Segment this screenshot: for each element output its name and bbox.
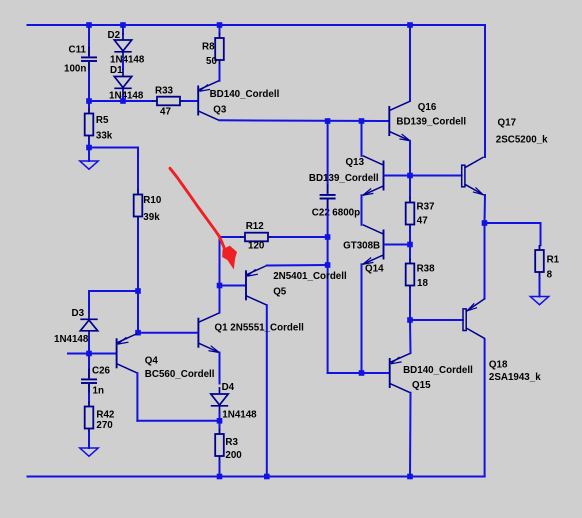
node R38/Q15 emitter/Q18 base junction: [407, 317, 413, 323]
node Q15 base junction: [359, 370, 365, 376]
wire R12 right: [273, 236, 328, 238]
node D4/R3 junction: [217, 418, 223, 424]
wire R10 top: [137, 148, 139, 190]
capacitor C22: [320, 184, 336, 209]
ground near R1: [530, 297, 548, 305]
diode D3 1N4148: [80, 312, 97, 338]
wire node to R33: [123, 100, 152, 102]
wire to R10 branch: [89, 147, 138, 149]
wire C11 bottom to node: [88, 72, 90, 102]
diode D4 1N4148: [211, 387, 228, 413]
wire Q13 emitter to Q14 collector: [361, 195, 363, 224]
svg-text:R3: R3: [225, 437, 238, 448]
ground near R5: [80, 161, 98, 169]
svg-text:D3: D3: [72, 308, 85, 319]
wire Q5 base node to Q1 collector: [219, 286, 221, 313]
svg-text:GT308B: GT308B: [343, 240, 380, 251]
wire C26 top: [88, 354, 90, 370]
node Q4 emitter/Q1 base junction: [135, 330, 141, 336]
wire D1 bottom: [122, 96, 124, 102]
wire R37 top: [409, 176, 411, 198]
ground near R42: [80, 448, 98, 456]
transistor Q15 BD140_Cordell (PNP): [390, 353, 411, 393]
wire R3 bottom: [219, 461, 221, 477]
svg-text:Q16: Q16: [418, 102, 437, 113]
wire D2-D1 link: [122, 60, 124, 69]
wire R12 down to Q5 base node: [219, 237, 221, 286]
resistor R37: [406, 198, 415, 230]
svg-text:120: 120: [248, 241, 265, 252]
svg-text:Q1 2N5551_Cordell: Q1 2N5551_Cordell: [215, 323, 305, 334]
node R8 top junction: [217, 22, 223, 28]
wire to Q16 collector: [409, 25, 411, 101]
svg-text:Q18: Q18: [489, 359, 508, 370]
svg-text:D4: D4: [222, 382, 235, 393]
wire R5 bottom: [88, 141, 90, 148]
wire Q3 collector to Q16 base: [220, 119, 389, 122]
transistor Q13 BD139_Cordell (NPN mirrored): [363, 156, 384, 196]
capacitor C26: [81, 369, 97, 394]
svg-text:6800p: 6800p: [332, 208, 360, 219]
wire C11 to D1 node: [89, 100, 123, 102]
wire Q13 base to node: [385, 175, 411, 177]
svg-text:1N4148: 1N4148: [222, 410, 257, 421]
svg-text:33k: 33k: [96, 131, 113, 142]
wire output to R1: [485, 222, 541, 224]
svg-text:1N4148: 1N4148: [109, 90, 144, 101]
transistor Q14 GT308B (NPN mirrored): [363, 225, 384, 265]
node Q13 collector junction: [359, 118, 365, 124]
wire top supply rail: [28, 24, 486, 26]
svg-text:R42: R42: [96, 410, 115, 421]
wire Q5 collector down: [266, 305, 268, 476]
resistor R8: [215, 33, 224, 65]
node output junction: [482, 220, 488, 226]
wire ground stub: [88, 148, 90, 162]
diode D1 1N4148: [114, 70, 131, 96]
svg-text:8: 8: [547, 270, 553, 281]
wire to Q4 emitter node: [137, 291, 139, 333]
transistor Q1 2N5551_Cordell (NPN): [198, 313, 219, 353]
wire C22 bottom: [327, 209, 329, 237]
svg-text:BD140_Cordell: BD140_Cordell: [210, 89, 280, 100]
transistor Q4 BC560_Cordell (PNP): [117, 334, 138, 374]
svg-text:1n: 1n: [93, 386, 104, 397]
svg-text:R12: R12: [246, 221, 265, 232]
svg-text:BD140_Cordell: BD140_Cordell: [403, 365, 473, 376]
wire R12 left: [220, 236, 241, 238]
wire Q16 emitter down: [409, 141, 411, 176]
svg-text:1N4148: 1N4148: [110, 54, 145, 65]
wire C22 top: [327, 121, 329, 185]
node V+ / C11 top junction: [86, 22, 92, 28]
resistor R5: [85, 109, 94, 141]
svg-text:47: 47: [160, 107, 171, 118]
svg-text:C11: C11: [69, 45, 87, 56]
svg-text:2N5401_Cordell: 2N5401_Cordell: [273, 271, 347, 282]
svg-text:Q15: Q15: [412, 380, 431, 391]
resistor R12: [240, 233, 273, 242]
svg-text:BC560_Cordell: BC560_Cordell: [145, 369, 215, 380]
wire R8 to Q3 emitter: [219, 65, 221, 81]
node C22 top junction: [325, 118, 331, 124]
svg-text:R5: R5: [96, 115, 109, 126]
wire Q4 base: [89, 353, 116, 355]
node D2 top junction: [120, 22, 126, 28]
resistor R33: [152, 97, 185, 106]
transistor Q3 BD140_Cordell (PNP): [198, 81, 219, 121]
wire Q18 collector drop: [484, 340, 486, 477]
wire to Q15 base: [328, 372, 389, 374]
svg-text:Q4: Q4: [145, 356, 159, 367]
wire Q13 collector: [361, 121, 363, 156]
node Q4 base junction: [86, 351, 92, 357]
svg-text:2SC5200_k: 2SC5200_k: [496, 135, 548, 146]
resistor R38: [406, 259, 415, 291]
wire output to Q18 emitter: [484, 223, 486, 299]
svg-text:R8: R8: [202, 42, 215, 53]
wire Q14 base to node: [385, 244, 411, 246]
wire bottom rail: [28, 476, 485, 478]
svg-text:R38: R38: [417, 264, 436, 275]
svg-text:R37: R37: [417, 201, 436, 212]
wire C11 top lead: [88, 25, 90, 47]
wire R38 bottom: [409, 291, 411, 321]
node D1/R33 junction: [120, 98, 126, 104]
svg-text:1N4148: 1N4148: [54, 334, 89, 345]
node Q5 collector/bottom rail: [264, 474, 270, 480]
wire Q1 base: [138, 332, 197, 334]
wire Q4 collector down: [136, 373, 138, 421]
svg-text:Q3: Q3: [213, 105, 227, 116]
node R37/R38/Q14 base junction: [407, 242, 413, 248]
svg-text:2SA1943_k: 2SA1943_k: [489, 372, 541, 383]
wire R3 top: [219, 421, 221, 429]
transistor Q17 2SC5200_k (NPN power): [462, 157, 484, 195]
wire Q15 collector down: [409, 393, 412, 477]
wire Q5 base: [220, 285, 246, 287]
node Q5 emitter junction: [325, 262, 331, 268]
svg-text:47: 47: [417, 216, 428, 227]
node Q5 base junction: [217, 283, 223, 289]
wire Q17 collector drop: [484, 25, 486, 157]
node R3/bottom rail: [217, 474, 223, 480]
svg-text:100n: 100n: [64, 63, 86, 74]
svg-text:200: 200: [225, 450, 242, 461]
resistor R3: [215, 429, 224, 461]
wire R10 bottom: [137, 222, 139, 292]
transistor Q16 BD139_Cordell (NPN): [389, 101, 410, 141]
wire R33 to Q3 base: [185, 100, 197, 102]
svg-text:R10: R10: [143, 195, 162, 206]
wire R8 top: [219, 25, 221, 33]
wire D2 top: [122, 25, 124, 34]
svg-text:D2: D2: [108, 30, 121, 41]
wire Q1 emitter to D4: [219, 353, 221, 384]
svg-text:50: 50: [206, 56, 217, 67]
svg-text:18: 18: [417, 278, 428, 289]
transistor Q18 2SA1943_k (PNP power): [463, 299, 485, 339]
node D3/R10 junction: [135, 288, 141, 294]
node Q16 collector junction: [407, 22, 413, 28]
svg-text:270: 270: [96, 420, 113, 431]
capacitor C11: [81, 47, 97, 72]
node R12/C22 junction: [325, 234, 331, 240]
wire Q14 emitter down: [361, 264, 363, 373]
wire D3 bottom: [88, 338, 90, 354]
wire Q17 emitter down: [484, 195, 487, 223]
svg-text:C26: C26: [92, 366, 111, 377]
svg-text:BD139_Cordell: BD139_Cordell: [309, 173, 379, 184]
node Q16e/Q13b/R37/Q17b junction: [407, 173, 413, 179]
wire R5 top: [88, 101, 90, 109]
resistor R10: [134, 190, 143, 222]
wire down to Q15 base row: [327, 265, 329, 373]
node R5/ground junction: [86, 145, 92, 151]
diode D2 1N4148: [114, 33, 131, 59]
wire Q18 base: [410, 319, 463, 321]
resistor R42: [85, 402, 94, 434]
transistor Q5 2N5401_Cordell (PNP): [246, 266, 267, 306]
wire Q4 collector to D4 node: [137, 420, 219, 422]
wire R1 to ground: [539, 277, 541, 297]
wire C22 node down: [327, 237, 329, 265]
wire to Q17 base: [410, 175, 462, 177]
wire R38 top: [409, 245, 411, 259]
svg-text:Q14: Q14: [365, 264, 384, 275]
wire D3 top row: [89, 290, 138, 292]
wire Q15 base: [362, 372, 389, 374]
svg-text:R1: R1: [547, 255, 560, 266]
svg-text:39k: 39k: [143, 212, 160, 223]
svg-text:Q13: Q13: [346, 157, 365, 168]
wire stub left of Q4 base: [68, 353, 89, 355]
wire Q15 emitter up: [409, 320, 412, 353]
svg-text:Q5: Q5: [273, 287, 287, 298]
wire R42 to ground: [88, 434, 90, 449]
svg-text:Q17: Q17: [498, 118, 517, 129]
wire C26 to R42: [88, 394, 90, 402]
annotation red arrow: [170, 168, 225, 248]
svg-text:BD139_Cordell: BD139_Cordell: [396, 116, 466, 127]
wire D3 top lead: [88, 291, 90, 312]
wire R1 top: [540, 223, 542, 245]
svg-text:D1: D1: [110, 65, 123, 76]
svg-text:R33: R33: [155, 86, 174, 97]
node C11/R5 junction: [86, 98, 92, 104]
node Q15 collector/bottom rail: [407, 474, 413, 480]
wire D4 bottom: [219, 413, 221, 421]
wire Q5 emitter to node: [267, 264, 328, 267]
resistor R1: [535, 245, 544, 277]
wire R37 bottom: [409, 230, 411, 245]
